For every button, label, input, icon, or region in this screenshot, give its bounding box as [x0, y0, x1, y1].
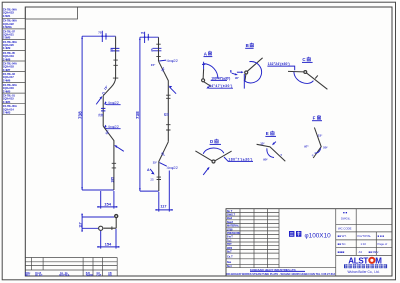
svg-text:φ: φ: [280, 153, 282, 156]
svg-text:W23: W23: [227, 246, 233, 250]
svg-text:32: 32: [100, 113, 104, 116]
svg-text:DWG&.: DWG&.: [341, 217, 351, 221]
svg-text:25: 25: [110, 48, 114, 52]
svg-text:C: C: [102, 91, 105, 95]
svg-text:15°: 15°: [153, 160, 158, 164]
svg-text:MATERIAL: MATERIAL: [227, 224, 240, 228]
svg-text:4xφ22: 4xφ22: [108, 100, 120, 105]
svg-text:15°: 15°: [318, 133, 323, 137]
svg-text:Page of: Page of: [378, 242, 388, 246]
svg-text:PRESSURE: PRESSURE: [227, 231, 240, 235]
svg-text:φ: φ: [312, 154, 314, 157]
svg-text:WC CODE: WC CODE: [338, 226, 352, 230]
svg-text:25: 25: [150, 48, 154, 52]
svg-text:ALST: ALST: [348, 256, 368, 265]
svg-text:109°47'(±30'): 109°47'(±30'): [211, 76, 230, 80]
svg-text:RL EC: RL EC: [35, 274, 42, 277]
svg-text:8aa.8: 8aa.8: [227, 220, 233, 224]
svg-text:15°: 15°: [260, 142, 265, 146]
svg-text:32: 32: [165, 113, 169, 116]
svg-text:MCL: MCL: [25, 274, 31, 277]
svg-text:DWG.T: DWG.T: [227, 212, 235, 216]
svg-text:■■■■: ■■■■: [338, 250, 345, 254]
svg-text:■ ■ ■: ■ ■ ■: [378, 234, 385, 238]
svg-text:90°: 90°: [263, 157, 268, 161]
svg-text:24°47'(±30'): 24°47'(±30'): [209, 84, 233, 88]
svg-text:180°7'(±30'): 180°7'(±30'): [228, 157, 252, 161]
svg-text:ROYSEA: ROYSEA: [59, 274, 69, 277]
svg-text:75: 75: [141, 31, 145, 35]
svg-text:B: B: [246, 43, 249, 48]
svg-text:Z-4M6: Z-4M6: [3, 78, 11, 82]
svg-text:4xφ22: 4xφ22: [167, 165, 179, 170]
svg-text:132°24'(±30'): 132°24'(±30'): [268, 62, 290, 66]
svg-text:2T08: 2T08: [227, 227, 233, 231]
svg-text:50°: 50°: [323, 146, 328, 150]
svg-text:KG/TOTAL: KG/TOTAL: [358, 234, 372, 238]
svg-text:Z-4M9: Z-4M9: [3, 46, 11, 50]
svg-text:154: 154: [105, 241, 112, 246]
svg-text:15°: 15°: [151, 63, 156, 67]
svg-text:E: E: [266, 131, 269, 136]
svg-text:A: A: [147, 168, 150, 172]
svg-text:25: 25: [150, 178, 154, 182]
svg-text:154: 154: [104, 202, 111, 207]
svg-text:■ ■: ■ ■: [343, 211, 347, 215]
svg-text:8a.4: 8a.4: [227, 264, 232, 268]
svg-text:4xφ22: 4xφ22: [108, 124, 120, 129]
svg-text:NO.BOILER WORKS STEAM TUBE PLA: NO.BOILER WORKS STEAM TUBE PLATE · WUHAN…: [227, 272, 336, 276]
svg-text:φ100X10: φ100X10: [305, 232, 332, 239]
svg-text:F: F: [313, 115, 316, 120]
svg-text:TRT: TRT: [227, 242, 232, 246]
svg-text:Ca. T: Ca. T: [227, 255, 233, 259]
svg-text:SHRN: SHRN: [86, 274, 93, 277]
svg-text:CAT: CAT: [97, 274, 102, 277]
svg-text:Bw3: Bw3: [227, 216, 233, 220]
svg-text:75: 75: [98, 30, 102, 34]
svg-text:M: M: [375, 256, 382, 265]
svg-text:Z-5M1: Z-5M1: [3, 14, 11, 18]
svg-text:117: 117: [78, 222, 82, 228]
svg-text:8a T: 8a T: [227, 209, 233, 213]
svg-text:738: 738: [77, 111, 82, 119]
svg-text:■■ SC.: ■■ SC.: [338, 242, 347, 246]
svg-text:4xφ22: 4xφ22: [167, 58, 179, 63]
svg-text:Ta.1: Ta.1: [227, 238, 232, 242]
svg-text:97°: 97°: [304, 145, 309, 149]
svg-text:■■ WT.: ■■ WT.: [338, 234, 347, 238]
svg-text:DO: DO: [108, 274, 112, 277]
svg-text:90°: 90°: [235, 76, 239, 80]
svg-text:185: 185: [110, 177, 114, 183]
svg-text:738: 738: [135, 111, 140, 119]
svg-text:1:10: 1:10: [361, 242, 367, 246]
svg-text:117: 117: [160, 205, 166, 209]
svg-text:D: D: [210, 139, 213, 144]
svg-text:Wuhan Boiler Co., Ltd.: Wuhan Boiler Co., Ltd.: [348, 270, 380, 274]
svg-text:Z-4M3: Z-4M3: [3, 111, 11, 115]
svg-text:8a.T: 8a.T: [227, 250, 232, 254]
svg-text:8 w T: 8 w T: [227, 235, 233, 239]
svg-text:■■ REV.: ■■ REV.: [369, 250, 380, 254]
svg-text:A3: A3: [359, 250, 363, 254]
